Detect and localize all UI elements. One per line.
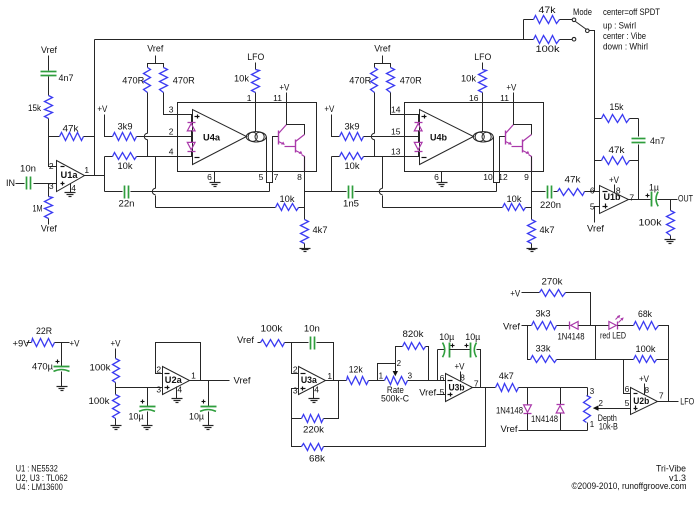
svg-text:270k: 270k <box>542 277 563 288</box>
svg-text:4k7: 4k7 <box>313 225 328 236</box>
net label Vref (U3a input) <box>237 335 254 346</box>
svg-text:3: 3 <box>293 386 298 396</box>
pin 2 label <box>156 364 161 374</box>
svg-text:6: 6 <box>207 172 212 182</box>
label 1N4148 <box>531 414 558 425</box>
net label +V (U2b) <box>639 374 649 384</box>
resistor 470R (left) <box>371 68 378 93</box>
svg-text:3k9: 3k9 <box>118 122 133 133</box>
resistor 33k <box>531 356 557 363</box>
wire <box>324 381 339 419</box>
wire <box>191 115 193 123</box>
wire <box>527 414 529 431</box>
wire <box>595 118 602 120</box>
wire <box>554 191 558 193</box>
LED red (vactrol lamp) <box>609 315 624 330</box>
net label Vref (3k3) <box>503 321 520 332</box>
current mirror of U4a <box>246 132 266 142</box>
wire <box>437 394 446 396</box>
wire <box>382 157 384 189</box>
wire <box>324 388 486 447</box>
wire <box>115 383 117 395</box>
capacitor 10µ (integrator B) <box>465 343 477 358</box>
svg-text:470R: 470R <box>349 76 371 87</box>
pin 12 label <box>498 172 508 182</box>
label 470R <box>400 76 422 87</box>
wire <box>292 389 302 447</box>
net label +V (supply) <box>70 339 80 349</box>
resistor 10k (feedback) <box>276 204 299 211</box>
op-amp U1a + mark <box>61 182 65 186</box>
label 500k-C <box>381 394 409 405</box>
capacitor 4n7 (U1b feedback) <box>632 139 646 143</box>
wire <box>48 56 50 71</box>
svg-text:10: 10 <box>483 172 493 182</box>
wire hop (470R over diode-bias row) <box>371 133 374 139</box>
wire <box>560 39 573 41</box>
svg-text:Vref: Vref <box>503 321 520 332</box>
diode (linearizing, lower) inside U4b <box>414 142 422 151</box>
resistor 100k (U2b feedback) <box>634 356 657 363</box>
svg-text:10k-B: 10k-B <box>599 422 618 433</box>
resistor 47k (Mode) <box>534 16 560 24</box>
switch throw contact (100k) <box>572 37 576 41</box>
svg-text:470µ: 470µ <box>32 362 54 373</box>
svg-text:Vref: Vref <box>501 424 518 435</box>
label 220k <box>303 425 324 436</box>
label 1M <box>33 204 43 215</box>
wire <box>524 19 534 21</box>
net label +V (pin 11) <box>279 83 289 93</box>
svg-text:7: 7 <box>474 378 479 388</box>
svg-text:4: 4 <box>177 384 182 394</box>
wire <box>85 175 105 177</box>
resistor 100k (divider lower) <box>113 395 120 419</box>
wire <box>16 183 25 185</box>
svg-text:10µ: 10µ <box>439 332 454 343</box>
svg-text:10n: 10n <box>304 324 320 335</box>
label 10n <box>304 324 320 335</box>
svg-text:3: 3 <box>169 105 174 115</box>
wire <box>299 207 305 209</box>
wire <box>105 191 123 193</box>
wire <box>156 343 201 381</box>
label 10n <box>20 164 36 175</box>
svg-text:11: 11 <box>273 93 282 103</box>
svg-text:470R: 470R <box>173 76 195 87</box>
wire <box>292 343 299 374</box>
pin 5 label <box>625 398 630 408</box>
svg-text:10k: 10k <box>280 194 295 205</box>
svg-text:4: 4 <box>314 384 319 394</box>
svg-text:500k-C: 500k-C <box>381 394 409 405</box>
label 15k <box>28 103 41 114</box>
svg-text:Vref: Vref <box>41 45 57 56</box>
svg-text:3k3: 3k3 <box>536 308 551 319</box>
label v1.3 <box>669 473 686 484</box>
wire <box>522 292 540 294</box>
svg-text:9: 9 <box>524 172 529 182</box>
svg-text:100k: 100k <box>636 344 656 355</box>
wire <box>305 191 347 193</box>
svg-text:13: 13 <box>391 147 401 157</box>
label 100k <box>536 44 560 55</box>
op-amp U2a name label <box>165 375 183 386</box>
wire <box>269 183 271 192</box>
pin 1 label <box>247 93 252 103</box>
label U1 : NE5532 <box>16 464 58 475</box>
svg-text:1: 1 <box>84 165 89 175</box>
label 10k-B <box>599 422 618 433</box>
diode 1N4148 (clamp, cathode down) <box>524 405 532 414</box>
svg-text:3: 3 <box>49 181 54 191</box>
label 10k <box>118 161 133 172</box>
label 3k9 <box>345 122 360 133</box>
net label IN <box>6 178 15 188</box>
wire <box>595 207 600 223</box>
svg-text:10µ: 10µ <box>129 412 144 423</box>
pin 7 label <box>659 391 664 401</box>
label 22n <box>119 199 135 210</box>
wire <box>438 349 445 351</box>
wire <box>208 381 210 407</box>
wire <box>618 325 634 327</box>
pin 3 label <box>49 181 54 191</box>
wire <box>285 342 309 344</box>
svg-text:10k: 10k <box>345 161 360 172</box>
label Tri-Vibe <box>656 464 686 475</box>
ground at pin 6 of U4a <box>210 172 221 187</box>
wire <box>155 56 157 64</box>
op-amp U3b <box>446 374 473 402</box>
wire <box>587 423 589 431</box>
pin 1 label <box>379 372 384 381</box>
label 10k <box>507 194 522 205</box>
pin 6 label <box>207 172 212 182</box>
wire <box>482 63 484 70</box>
net label LFO <box>474 52 491 63</box>
label 10µ <box>189 412 204 423</box>
wire <box>519 387 588 389</box>
pin 3 label <box>293 386 298 396</box>
svg-text:4: 4 <box>71 183 76 193</box>
capacitor 1µ (output) <box>646 192 659 207</box>
potentiometer Rate 500k-C <box>385 377 408 385</box>
label 1n5 <box>343 199 359 210</box>
pin 7 label <box>474 378 479 388</box>
svg-text:Vref: Vref <box>147 44 163 55</box>
wire <box>147 412 149 426</box>
svg-text:15k: 15k <box>28 103 41 114</box>
wire <box>364 156 405 158</box>
wire <box>208 412 210 426</box>
resistor 15k (U1b feedback) <box>602 115 630 123</box>
svg-text:red LED: red LED <box>600 331 626 342</box>
wire <box>560 414 562 431</box>
wire <box>482 93 484 103</box>
wire <box>273 137 279 172</box>
svg-text:+V: +V <box>324 104 334 114</box>
pin 7 label <box>629 192 634 202</box>
pin 1 label <box>327 371 332 381</box>
wire <box>670 200 672 211</box>
wire <box>48 184 50 197</box>
op-amp U3a + mark <box>301 387 306 391</box>
net label +V (U3b) <box>455 361 465 371</box>
ground <box>142 426 153 430</box>
label 4n7 <box>650 136 665 147</box>
svg-text:10µ: 10µ <box>465 332 480 343</box>
label 470R <box>173 76 195 87</box>
wire <box>418 115 420 123</box>
wire <box>147 93 149 134</box>
label 12k <box>349 364 363 375</box>
svg-text:2: 2 <box>397 359 402 368</box>
wire <box>496 183 498 192</box>
wire <box>287 103 305 135</box>
wire <box>258 342 261 344</box>
wire <box>304 172 306 220</box>
label 1N4148 <box>558 332 585 343</box>
wire <box>523 20 525 40</box>
wire <box>104 157 106 192</box>
svg-text:Vref: Vref <box>419 387 436 398</box>
pin 5 label <box>590 201 595 211</box>
label 4n7 <box>59 73 74 84</box>
wire <box>405 114 420 116</box>
wire <box>566 293 591 326</box>
wire <box>178 156 193 158</box>
svg-text:3k9: 3k9 <box>345 122 360 133</box>
label 68k <box>638 309 652 320</box>
svg-text:5: 5 <box>259 172 264 182</box>
svg-text:8: 8 <box>297 172 302 182</box>
wire <box>493 137 495 172</box>
svg-text:68k: 68k <box>638 309 652 320</box>
wire <box>522 325 532 327</box>
label 100k <box>636 344 656 355</box>
resistor 470R (left) <box>144 68 151 93</box>
resistor 10k (input) <box>113 153 137 160</box>
label 4k7 <box>499 371 514 382</box>
label 220n <box>540 200 561 211</box>
wire <box>116 387 163 389</box>
wire <box>115 349 117 359</box>
capacitor 10n (U3a) <box>311 337 315 350</box>
label 100k <box>90 363 111 374</box>
pin 6 label <box>440 373 445 383</box>
svg-text:16: 16 <box>469 93 479 103</box>
wire <box>191 152 193 157</box>
label 10k <box>345 161 360 172</box>
wire <box>595 326 597 360</box>
op-amp U2a <box>163 367 190 395</box>
wire <box>48 77 50 96</box>
wire <box>477 350 481 388</box>
op-amp U2b name label <box>633 396 649 407</box>
wire <box>147 388 149 407</box>
wire <box>55 342 70 344</box>
net label +V (pin 11) <box>506 83 516 93</box>
op-amp U1b + mark <box>603 204 608 209</box>
svg-text:6: 6 <box>440 373 445 383</box>
net label +V (3k9) <box>97 104 107 114</box>
label 4k7 <box>313 225 328 236</box>
svg-text:2: 2 <box>598 399 603 408</box>
label 270k <box>542 277 563 288</box>
label U4 : LM13600 <box>16 482 63 493</box>
pin 8 label <box>297 172 302 182</box>
wire <box>94 40 96 176</box>
svg-text:1: 1 <box>327 371 332 381</box>
wire <box>285 146 296 148</box>
resistor 47k (U1b feedback) <box>602 157 630 165</box>
wire <box>585 191 600 193</box>
pin 2 label <box>49 161 54 171</box>
pin 9 label <box>524 172 529 182</box>
svg-text:470R: 470R <box>122 76 144 87</box>
wire <box>147 140 149 157</box>
resistor 100k (divider upper) <box>113 359 120 383</box>
wire <box>482 103 484 132</box>
wire <box>526 207 532 209</box>
svg-text:470R: 470R <box>400 76 422 87</box>
label 470R <box>122 76 144 87</box>
label 10k <box>234 74 249 85</box>
net label Vref (output) <box>234 375 251 386</box>
wire <box>500 137 506 172</box>
op-amp U1b <box>600 186 629 214</box>
svg-text:33k: 33k <box>536 343 551 354</box>
svg-text:+V: +V <box>455 361 465 371</box>
svg-text:+V: +V <box>97 104 107 114</box>
wire <box>587 388 589 396</box>
resistor 47k (U1b input) <box>558 189 585 196</box>
resistor 10k (LFO bias) <box>252 70 260 93</box>
wire <box>529 155 532 172</box>
wire <box>332 115 340 137</box>
pin 10 label <box>483 172 493 182</box>
wire <box>460 372 462 382</box>
svg-text:220k: 220k <box>303 425 324 436</box>
svg-text:47k: 47k <box>63 124 79 135</box>
resistor 470R (right) <box>387 68 395 93</box>
svg-text:1: 1 <box>247 93 252 103</box>
op-amp U3b + mark <box>448 393 453 397</box>
wire <box>267 172 273 183</box>
svg-text:+V: +V <box>70 339 80 349</box>
label 470R <box>349 76 371 87</box>
resistor 100k (Mode) <box>534 36 560 44</box>
svg-text:center=off SPDT: center=off SPDT <box>603 7 660 18</box>
wire <box>595 160 602 162</box>
op-amp U4a triangle <box>193 110 247 165</box>
wire <box>627 408 631 410</box>
wire <box>374 140 376 157</box>
op-amp U2b - mark <box>634 393 638 395</box>
pin 16 label <box>469 93 479 103</box>
capacitor 4n7 (U1a) <box>41 72 57 76</box>
pin 2 label <box>293 365 298 375</box>
wire <box>49 136 60 138</box>
capacitor 10µ (Vref bypass) <box>200 400 217 412</box>
ground at pin 6 of U4b <box>437 172 448 187</box>
svg-text:22R: 22R <box>36 326 52 337</box>
svg-text:+V: +V <box>506 83 516 93</box>
resistor 10k (LFO bias) <box>479 70 487 93</box>
svg-text:1n5: 1n5 <box>343 199 359 210</box>
label 47k <box>63 124 79 135</box>
wire <box>614 185 616 193</box>
svg-text:8: 8 <box>616 185 621 195</box>
net label +V (3k9) <box>324 104 334 114</box>
wire <box>658 199 678 201</box>
svg-text:1: 1 <box>590 420 595 429</box>
net label Vref (U3b +) <box>419 387 436 398</box>
wire <box>95 39 524 41</box>
label 100k <box>639 218 662 229</box>
resistor 470R (right) <box>160 68 168 93</box>
label up : Swirl <box>603 21 636 32</box>
svg-text:220n: 220n <box>540 200 561 211</box>
net label +V (divider) <box>111 339 121 349</box>
label copyright <box>572 481 687 492</box>
op-amp U4b (OTA) box <box>405 103 544 172</box>
label Rate <box>387 385 404 396</box>
wire hop (470R over diode-bias row) <box>144 133 147 139</box>
wire <box>531 172 533 220</box>
svg-text:U1a: U1a <box>61 170 79 181</box>
pin 5 label <box>259 172 264 182</box>
pin 1 label <box>84 165 89 175</box>
net label +V (270k) <box>510 289 520 299</box>
wire <box>560 388 562 405</box>
wire <box>164 93 178 115</box>
wire <box>304 244 306 249</box>
diode (linearizing, upper) inside U4a <box>187 123 195 131</box>
transistor Q2 (buffer) of U4b <box>523 135 532 154</box>
wire <box>191 131 193 143</box>
svg-text:820k: 820k <box>403 329 424 340</box>
capacitor 10µ (divider) <box>139 400 156 412</box>
ground <box>111 426 122 430</box>
op-amp U1a <box>57 161 85 192</box>
svg-text:U4b: U4b <box>430 132 447 143</box>
pin 4 label <box>169 147 174 157</box>
svg-text:12k: 12k <box>349 364 363 375</box>
wire <box>658 401 679 403</box>
op-amp U1b name label <box>604 192 621 203</box>
wire <box>105 156 113 158</box>
svg-text:10k: 10k <box>461 74 476 85</box>
pin 14 label <box>391 105 401 115</box>
label red LED <box>600 331 626 342</box>
pin 3 label <box>169 105 174 115</box>
svg-text:IN: IN <box>6 178 15 188</box>
op-amp U3b name label <box>449 383 465 394</box>
wire <box>364 136 405 138</box>
svg-text:6: 6 <box>434 172 439 182</box>
resistor 22R <box>32 339 55 347</box>
pin 3 label <box>408 372 413 381</box>
svg-text:4k7: 4k7 <box>499 371 514 382</box>
op-amp U3a <box>299 367 326 395</box>
wire <box>34 183 57 185</box>
resistor 3k3 <box>532 322 557 330</box>
wire <box>629 199 651 201</box>
svg-text:U3b: U3b <box>449 383 465 394</box>
op-amp U1b - mark <box>603 191 608 193</box>
